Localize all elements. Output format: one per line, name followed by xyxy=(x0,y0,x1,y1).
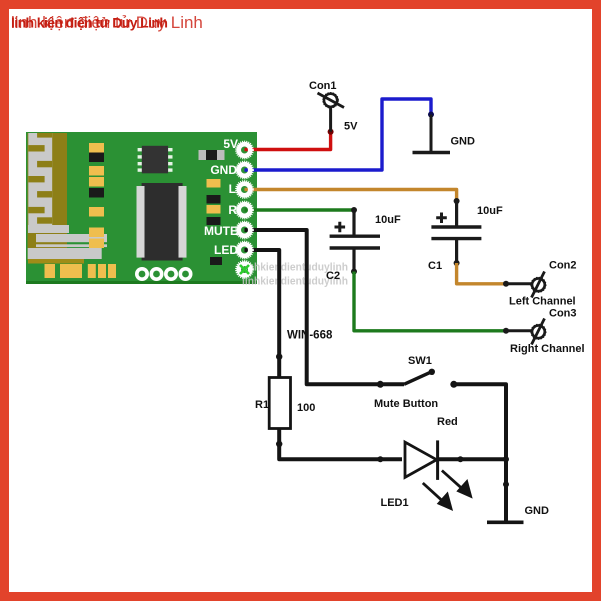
wire MUTE (black) xyxy=(245,230,381,384)
svg-text:L: L xyxy=(229,182,236,196)
wire L (orange) xyxy=(245,190,457,202)
junction red/Con1 xyxy=(328,129,334,135)
svg-text:SW1: SW1 xyxy=(408,355,432,367)
watermark gray text xyxy=(242,262,348,288)
LED LED1 xyxy=(405,440,506,480)
switch SW1 xyxy=(377,369,458,388)
junction LED/GND xyxy=(503,456,509,462)
pad column near pins xyxy=(207,179,223,265)
wire R (green) xyxy=(245,208,355,211)
wire GND (blue) xyxy=(245,99,432,170)
bendpoint xyxy=(276,441,282,447)
junction orange/C1 xyxy=(454,198,460,204)
bottom pads xyxy=(45,264,117,278)
svg-text:R: R xyxy=(228,203,237,217)
bendpoint xyxy=(276,354,282,360)
wire C2 to Con3 (green) xyxy=(354,272,506,331)
passive component column (middle) xyxy=(89,143,104,248)
wire 5V (red) xyxy=(245,132,331,150)
junction C1/orange bottom xyxy=(454,260,460,266)
junction green/Con3 xyxy=(503,328,509,334)
svg-text:GND: GND xyxy=(451,136,476,148)
svg-text:linh kiện điện tử Duy Linh: linh kiện điện tử Duy Linh xyxy=(11,15,167,31)
LED arrows xyxy=(423,471,471,509)
IC U2 (large) xyxy=(137,183,187,261)
connector Con3 xyxy=(506,319,546,345)
svg-text:100: 100 xyxy=(297,402,315,414)
svg-text:Con3: Con3 xyxy=(549,308,577,320)
wire R1 to LED (black) xyxy=(279,429,402,460)
svg-text:Red: Red xyxy=(437,416,458,428)
connector Con2 xyxy=(506,272,546,298)
svg-text:Mute Button: Mute Button xyxy=(374,398,438,410)
svg-text:Right Channel: Right Channel xyxy=(510,343,585,355)
svg-text:LED: LED xyxy=(214,243,238,257)
watermark title text xyxy=(11,13,203,32)
ground GND (bottom) xyxy=(487,520,524,524)
wire C1 to Con2 (orange) xyxy=(457,263,506,284)
wire SW1 to LED net (black) xyxy=(454,384,506,520)
green X mark on spare hole xyxy=(240,265,249,274)
svg-text:10uF: 10uF xyxy=(375,214,401,226)
svg-text:Left Channel: Left Channel xyxy=(509,296,576,308)
svg-text:Con2: Con2 xyxy=(549,260,577,272)
svg-text:Con1: Con1 xyxy=(309,80,337,92)
svg-text:GND: GND xyxy=(525,505,550,517)
bottom holes xyxy=(135,267,193,281)
svg-text:GND: GND xyxy=(210,163,237,177)
svg-text:WIN-668: WIN-668 xyxy=(287,330,333,342)
junction C2/green bottom xyxy=(351,269,357,275)
wire LED pin (black) xyxy=(245,250,280,378)
svg-text:C2: C2 xyxy=(326,270,340,282)
resistor R1 xyxy=(269,378,290,429)
antenna area xyxy=(28,133,108,264)
capacitor C1 xyxy=(431,201,481,263)
svg-text:C1: C1 xyxy=(428,260,442,272)
module WIN-668 board xyxy=(26,132,257,284)
svg-text:5V: 5V xyxy=(344,121,358,133)
bendpoint xyxy=(503,481,509,487)
junction green/C2 xyxy=(351,207,357,213)
SMD resistor near 5V pin xyxy=(199,150,225,160)
junction orange/Con2 xyxy=(503,281,509,287)
junction blue/GND xyxy=(428,112,434,118)
svg-text:MUTE: MUTE xyxy=(204,224,238,238)
pin labels xyxy=(204,137,238,257)
svg-text:10uF: 10uF xyxy=(477,205,503,217)
svg-text:R1: R1 xyxy=(255,399,269,411)
junction LED anode xyxy=(377,456,383,462)
pin hole rings (drawn over wires) xyxy=(236,141,253,278)
IC U1 (8-pin SOIC) xyxy=(138,146,173,174)
svg-text:LED1: LED1 xyxy=(381,497,409,509)
connector Con1 xyxy=(318,93,345,132)
capacitor C2 xyxy=(330,210,380,272)
ground GND (top) xyxy=(413,115,451,153)
